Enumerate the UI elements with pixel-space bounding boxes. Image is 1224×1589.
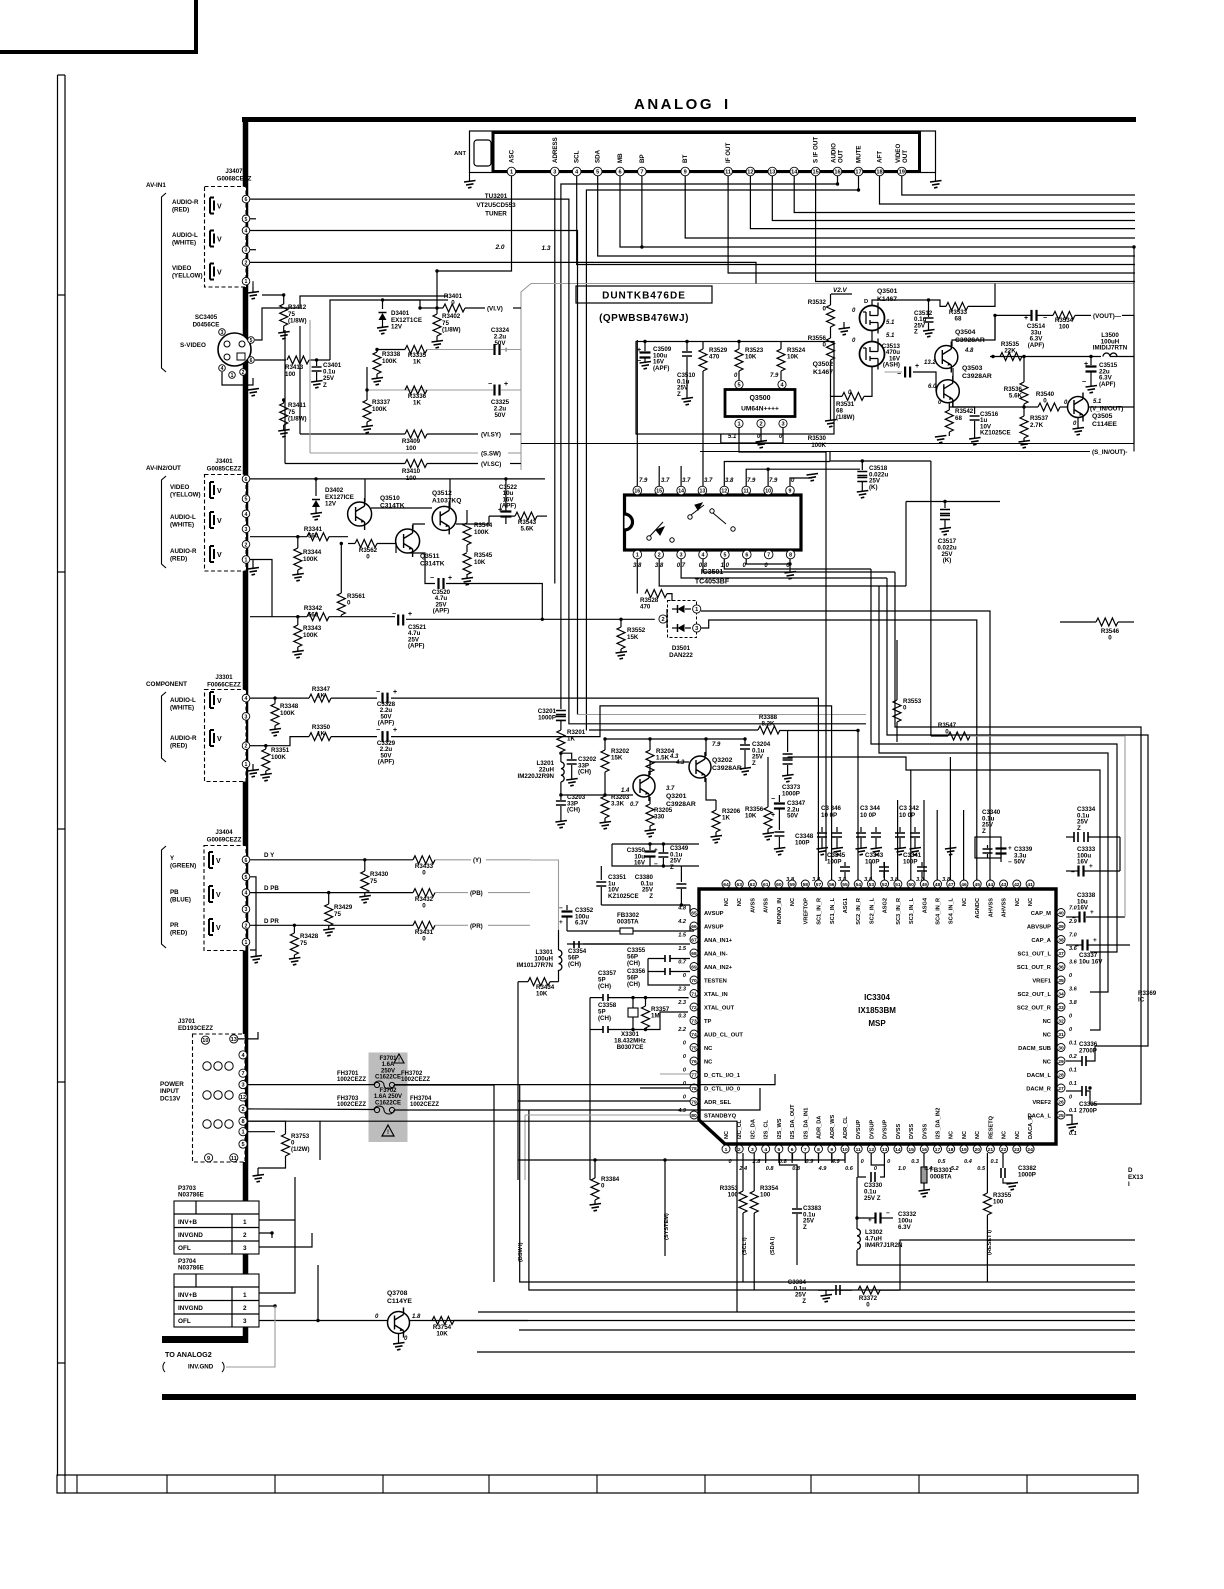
svg-text:−: −: [654, 861, 658, 868]
net label (S_IN/OUT): [700, 451, 1090, 453]
svg-text:68: 68: [955, 415, 962, 422]
svg-text:−: −: [559, 905, 563, 912]
resistor R3528: [645, 590, 667, 598]
resistor R3553: [896, 640, 898, 700]
capacitor C3347: [778, 795, 780, 802]
svg-text:3.8: 3.8: [1069, 1000, 1078, 1006]
svg-text:5: 5: [596, 170, 599, 176]
wire: audio lines into caps: [366, 367, 368, 390]
svg-text:I2C_CL: I2C_CL: [737, 1119, 743, 1139]
wire: SCL I bottom bus: [520, 1085, 1135, 1282]
svg-text:3: 3: [241, 1083, 244, 1089]
svg-text:(YELLOW): (YELLOW): [170, 491, 201, 498]
tuner pin 1: [507, 167, 516, 176]
J3407 jack VIDEO: [210, 264, 214, 280]
net box bottom edge: [521, 443, 1134, 445]
svg-text:6: 6: [791, 1147, 794, 1153]
svg-text:3: 3: [245, 714, 248, 720]
capacitor C3510: [686, 342, 688, 352]
svg-text:Z: Z: [803, 1224, 807, 1231]
wire: ANA_IN1+ line: [567, 943, 630, 945]
wire: video out bus y356: [990, 356, 1101, 358]
svg-text:1000P: 1000P: [1018, 1171, 1036, 1178]
svg-text:(BLUE): (BLUE): [170, 896, 191, 903]
svg-text:V: V: [216, 892, 221, 899]
bottom bus y1352: [477, 1351, 1135, 1353]
svg-text:F3702: F3702: [379, 1088, 397, 1094]
svg-text:(RED): (RED): [172, 206, 189, 213]
svg-text:41: 41: [1027, 882, 1033, 888]
svg-text:(APF): (APF): [1099, 381, 1116, 388]
crystal X3301: [628, 1008, 638, 1017]
wire: elbow bus E: [887, 578, 1148, 1046]
connector J3701 box: [193, 1034, 246, 1162]
svg-text:KZ1025CE: KZ1025CE: [980, 430, 1011, 437]
capacitor C3329: [383, 731, 388, 742]
svg-text:V: V: [216, 925, 221, 932]
svg-text:560: 560: [308, 612, 319, 619]
D3501 pin1: [693, 605, 701, 613]
bracket AV-IN1 group: [162, 193, 167, 372]
resistor R3205: [649, 797, 651, 804]
svg-text:D0456CE: D0456CE: [193, 322, 220, 329]
resistor R3202: [604, 739, 606, 750]
frame: top heavy line: [242, 117, 1136, 122]
svg-text:80: 80: [691, 1113, 697, 1119]
svg-text:(APF): (APF): [408, 643, 425, 650]
svg-text:DVSUP: DVSUP: [856, 1119, 862, 1139]
wire: Q3202 collector/emitter: [705, 739, 707, 756]
svg-text:6: 6: [245, 858, 248, 864]
transistor Q3202: [689, 756, 711, 778]
svg-text:+: +: [1093, 937, 1097, 944]
tuner pin 6: [616, 167, 625, 176]
svg-text:!: !: [398, 1058, 400, 1064]
svg-text:4: 4: [245, 512, 248, 518]
svg-text:3: 3: [553, 170, 556, 176]
svg-text:50: 50: [908, 882, 914, 888]
svg-text:3.8: 3.8: [725, 478, 734, 484]
svg-text:Q3510: Q3510: [380, 495, 400, 502]
svg-text:NC: NC: [724, 1131, 730, 1139]
svg-text:100K: 100K: [811, 442, 826, 449]
svg-text:TP: TP: [704, 1019, 712, 1025]
svg-text:7: 7: [241, 1071, 244, 1077]
Q3500 pin 5: [735, 380, 743, 388]
resistor R3355: [986, 1153, 988, 1193]
J3301 jack AUDIO-R: [210, 730, 214, 746]
svg-text:C3 342: C3 342: [899, 805, 920, 812]
svg-text:(APF): (APF): [378, 720, 395, 727]
J3404 jack PB: [209, 886, 213, 902]
svg-text:1: 1: [231, 373, 234, 379]
svg-text:0.4: 0.4: [964, 1159, 973, 1165]
wire: video-in1 node to R3401: [374, 261, 376, 263]
svg-text:NC: NC: [704, 1046, 713, 1052]
svg-text:ADR_SEL: ADR_SEL: [704, 1100, 732, 1106]
svg-text:C3 344: C3 344: [860, 805, 881, 812]
svg-text:11: 11: [743, 489, 749, 495]
svg-text:43: 43: [1001, 882, 1007, 888]
svg-text:AV-IN1: AV-IN1: [146, 182, 166, 189]
svg-text:(GREEN): (GREEN): [170, 862, 196, 869]
wire: av-in2 audio-R row: [250, 560, 272, 617]
wire: J3701 pin13 to frame: [238, 1032, 258, 1039]
capacitor C3384 and resistor R3372: [818, 1289, 834, 1291]
svg-text:MONO_IN: MONO_IN: [777, 898, 783, 924]
wires: right caps rails: [1119, 837, 1121, 871]
svg-text:Q3504: Q3504: [955, 329, 976, 336]
transistor Q3510: [348, 502, 372, 526]
svg-text:15: 15: [908, 1147, 914, 1153]
tuner pin 7: [638, 167, 647, 176]
svg-text:1.0: 1.0: [898, 1166, 907, 1172]
svg-text:AHVSS: AHVSS: [1002, 898, 1008, 918]
svg-text:I2S_DA_IN1: I2S_DA_IN1: [803, 1108, 809, 1139]
svg-text:16: 16: [834, 170, 840, 176]
ferrite bead FB3301: [921, 1167, 927, 1183]
wires: IC3501 bottom pin connections: [636, 559, 638, 594]
resistor R3524: [780, 342, 782, 350]
resistor R3201: [557, 730, 565, 752]
wire bus: tuner outputs to right edge: [902, 176, 1135, 195]
svg-text:75: 75: [300, 940, 307, 947]
svg-text:78: 78: [691, 1086, 697, 1092]
wire: audio row to Q3201 base: [561, 794, 633, 796]
wire: s-video luma: [255, 308, 300, 340]
svg-text:10K: 10K: [536, 990, 548, 997]
J3404 pins: [242, 856, 250, 864]
svg-text:4.9: 4.9: [818, 1166, 828, 1172]
wire: tuner MUTE pin17 to mute line: [586, 176, 858, 731]
svg-text:5: 5: [245, 875, 248, 881]
svg-text:Q3500: Q3500: [749, 395, 770, 402]
svg-text:ADRESS: ADRESS: [552, 137, 559, 163]
border: left ruler double line: [57, 75, 59, 1476]
svg-text:AUDIO-R: AUDIO-R: [170, 548, 197, 555]
svg-text:(CH): (CH): [568, 961, 581, 968]
svg-text:5: 5: [241, 1142, 244, 1148]
svg-text:(WHITE): (WHITE): [170, 704, 194, 711]
svg-text:DUNTKB476DE: DUNTKB476DE: [602, 291, 686, 302]
resistor R3341: [307, 533, 329, 541]
svg-text:+: +: [559, 919, 563, 926]
svg-text:ABVSUP: ABVSUP: [1027, 925, 1051, 931]
svg-text:J3404: J3404: [215, 829, 233, 836]
svg-text:−: −: [1008, 859, 1012, 866]
svg-text:1002CEZZ: 1002CEZZ: [410, 1102, 439, 1108]
svg-text:22K: 22K: [1004, 347, 1016, 354]
wire: left elbow from C3517 line: [905, 502, 907, 587]
svg-text:29: 29: [1058, 1059, 1064, 1065]
svg-text:5: 5: [245, 217, 248, 223]
svg-text:40: 40: [1058, 911, 1064, 917]
svg-text:1000P: 1000P: [538, 715, 556, 722]
svg-text:XTAL_OUT: XTAL_OUT: [704, 1006, 735, 1012]
svg-text:N03786E: N03786E: [178, 1265, 204, 1272]
J3301 jack AUDIO-L: [210, 692, 214, 708]
svg-text:Z: Z: [752, 760, 756, 767]
IC3501 body: [625, 495, 802, 550]
D3501 pin2: [659, 615, 667, 623]
J3407 pins: [242, 195, 250, 203]
transistor Q3505 C114EE: [1068, 397, 1089, 418]
svg-text:3: 3: [243, 1245, 247, 1252]
svg-text:DAN222: DAN222: [669, 652, 693, 659]
tuner TU3201 outer box: [470, 131, 936, 173]
svg-text:−: −: [488, 347, 492, 354]
svg-text:0.1: 0.1: [1069, 1041, 1077, 1047]
svg-text:ADR_WS: ADR_WS: [830, 1114, 836, 1139]
svg-text:(VI.SY): (VI.SY): [481, 432, 501, 439]
bottom bus y1330: [519, 1329, 1135, 1331]
svg-text:1000P: 1000P: [782, 791, 800, 798]
svg-text:AFT: AFT: [877, 151, 884, 163]
svg-text:G0085CEZZ: G0085CEZZ: [207, 466, 242, 473]
svg-text:34: 34: [1058, 992, 1064, 998]
capacitor C3352: [566, 905, 568, 910]
resistor R3529: [702, 342, 704, 350]
svg-text:14: 14: [791, 170, 798, 176]
svg-text:0008TA: 0008TA: [930, 1173, 952, 1180]
IC3501 pin9 top link: [790, 478, 812, 486]
svg-text:48: 48: [935, 882, 941, 888]
svg-text:Z: Z: [323, 382, 327, 389]
svg-text:3: 3: [245, 527, 248, 533]
svg-text:NC: NC: [1015, 898, 1021, 906]
svg-text:(VOUT)—: (VOUT)—: [1093, 313, 1122, 320]
wire: chroma line down-right: [330, 300, 448, 360]
svg-text:2.0: 2.0: [494, 244, 504, 251]
wires: IC3501 top pin connections: [636, 340, 638, 486]
svg-text:5: 5: [737, 383, 740, 389]
svg-text:10K: 10K: [745, 813, 757, 820]
svg-text:−: −: [1075, 943, 1079, 950]
svg-text:100K: 100K: [303, 556, 318, 563]
IC3304 right pins 40..25: [1057, 909, 1065, 917]
svg-text:4: 4: [702, 553, 705, 559]
svg-text:Q3501: Q3501: [877, 288, 898, 295]
svg-text:DACA_L: DACA_L: [1027, 1114, 1051, 1120]
svg-text:VIDEO: VIDEO: [172, 265, 191, 272]
wire: D3501 pin3 right down to IC3304 pin45: [701, 620, 977, 884]
svg-text:100: 100: [1059, 323, 1070, 330]
svg-text:62: 62: [750, 882, 756, 888]
svg-text:(WHITE): (WHITE): [172, 239, 196, 246]
svg-text:DVSS: DVSS: [922, 1123, 928, 1139]
svg-text:MB: MB: [617, 153, 624, 163]
svg-text:BP: BP: [639, 154, 646, 163]
svg-text:PR: PR: [170, 922, 179, 929]
svg-text:AUDIO: AUDIO: [831, 143, 838, 163]
svg-text:D PR: D PR: [264, 918, 279, 925]
J3701 inner contacts: [203, 1062, 211, 1070]
svg-text:D: D: [864, 299, 868, 305]
svg-text:(QPWBSB476WJ): (QPWBSB476WJ): [599, 313, 689, 324]
svg-text:VREF1: VREF1: [1032, 979, 1051, 985]
wire: AV-IN1 video row: [250, 262, 756, 283]
resistor R3552: [619, 618, 622, 621]
svg-text:5.6K: 5.6K: [520, 526, 534, 533]
capacitor C3401: [309, 359, 330, 361]
svg-text:4.3: 4.3: [675, 760, 685, 766]
resistor R3410: [405, 460, 427, 468]
svg-text:DVSS: DVSS: [896, 1123, 902, 1139]
capacitor C3354: [574, 941, 579, 948]
wire: tuner AUDIO OUT pin16 to audio filter: [561, 176, 838, 709]
svg-text:7.0: 7.0: [1069, 933, 1078, 939]
svg-text:10 0P: 10 0P: [821, 812, 837, 819]
svg-text:ANA_IN-: ANA_IN-: [704, 952, 728, 958]
svg-text:1: 1: [725, 1147, 728, 1153]
svg-text:65: 65: [691, 911, 697, 917]
svg-text:C3 346: C3 346: [821, 805, 842, 812]
resistor R3432: [413, 889, 435, 897]
svg-text:10: 10: [202, 1038, 208, 1044]
svg-text:SC4_IN_R: SC4_IN_R: [936, 898, 942, 925]
net label (S.SW): [310, 452, 478, 454]
svg-text:61: 61: [763, 882, 769, 888]
svg-text:0.3: 0.3: [678, 1014, 687, 1020]
svg-text:Z: Z: [802, 1298, 806, 1305]
svg-text:B0307CE: B0307CE: [617, 1044, 644, 1051]
svg-text:7: 7: [767, 553, 770, 559]
svg-text:SC3405: SC3405: [195, 314, 218, 321]
svg-text:AV-IN2/OUT: AV-IN2/OUT: [146, 465, 181, 472]
svg-text:VREF2: VREF2: [1032, 1100, 1051, 1106]
svg-text:35: 35: [1058, 978, 1064, 984]
svg-text:(RESET I): (RESET I): [987, 1230, 993, 1255]
svg-text:560: 560: [308, 533, 319, 540]
svg-text:5.1: 5.1: [728, 434, 737, 440]
wire: Q3503 emitter to R3542 and base rows: [935, 384, 937, 391]
svg-text:1: 1: [245, 762, 248, 768]
wire: fuse row 1: [247, 1084, 374, 1086]
svg-text:60: 60: [776, 882, 782, 888]
svg-text:Q3511: Q3511: [420, 553, 440, 560]
capacitor C3349: [662, 844, 664, 852]
svg-text:71: 71: [691, 992, 697, 998]
svg-text:1: 1: [245, 279, 248, 285]
svg-text:AUDIO-R: AUDIO-R: [172, 199, 199, 206]
tuner pin 4: [572, 167, 581, 176]
wire: elbow y757 to right caps: [788, 757, 1100, 1030]
svg-text:64: 64: [723, 882, 729, 888]
svg-text:(VI.V): (VI.V): [487, 306, 503, 313]
svg-text:ADR_DA: ADR_DA: [817, 1116, 823, 1139]
svg-text:Z: Z: [670, 864, 674, 871]
svg-text:17: 17: [855, 170, 861, 176]
tuner pin 12: [746, 167, 755, 176]
svg-text:INVGND: INVGND: [178, 1232, 203, 1239]
svg-text:NC: NC: [704, 1060, 713, 1066]
resistor R3434: [528, 978, 550, 986]
svg-text:7: 7: [640, 170, 643, 176]
svg-text:NC: NC: [962, 1131, 968, 1139]
connector P3703 table: [174, 1201, 259, 1254]
resistor R3534: [1053, 311, 1075, 319]
wire: R3412 top joins: [262, 294, 284, 296]
wire: C3518 node down right: [930, 461, 932, 736]
wire: XTAL_OUT to pins: [631, 996, 634, 999]
svg-text:NC: NC: [1015, 1131, 1021, 1139]
Q3500 pin2 ground: [760, 428, 762, 441]
svg-text:1: 1: [636, 553, 639, 559]
net box: video switch enclosure top (gray): [521, 284, 1134, 471]
svg-text:C1622CE: C1622CE: [375, 1075, 401, 1081]
svg-text:7.9: 7.9: [769, 478, 778, 484]
svg-text:50V: 50V: [787, 813, 799, 820]
svg-text:NC: NC: [962, 898, 968, 906]
svg-text:UM64N++++: UM64N++++: [741, 406, 779, 413]
wire: fuse row 2: [247, 1108, 374, 1111]
J3401 jack AUDIO-R: [210, 546, 214, 562]
svg-text:13: 13: [231, 1037, 237, 1043]
svg-text:8: 8: [789, 553, 792, 559]
svg-text:SCL: SCL: [574, 150, 581, 163]
svg-text:17: 17: [935, 1147, 941, 1153]
svg-text:73: 73: [691, 1019, 697, 1025]
svg-text:IM220J2R9N: IM220J2R9N: [518, 773, 555, 780]
resistor R3561: [340, 544, 342, 594]
svg-text:2: 2: [243, 1232, 247, 1239]
svg-text:11: 11: [231, 1156, 237, 1162]
Q3500 cell enclosure box: [636, 342, 834, 435]
wire: Q3500 pin1 down right: [739, 428, 826, 861]
svg-text:OUT: OUT: [838, 150, 845, 163]
svg-text:79: 79: [691, 1100, 697, 1106]
svg-text:DVSUP: DVSUP: [883, 1119, 889, 1139]
svg-text:23: 23: [1014, 1147, 1020, 1153]
resistor R3547: [948, 732, 970, 740]
J3401 jack AUDIO-L: [210, 512, 214, 528]
tuner pin 19: [898, 167, 907, 176]
svg-text:75: 75: [370, 878, 377, 885]
wire: tuner SDA pin5 to right: [598, 176, 1135, 256]
svg-text:MSP: MSP: [868, 1019, 886, 1028]
svg-text:ANA_IN1+: ANA_IN1+: [704, 938, 733, 944]
svg-text:DACM_R: DACM_R: [1026, 1087, 1052, 1093]
svg-text:4.9: 4.9: [677, 1108, 687, 1114]
svg-text:Q3503: Q3503: [962, 365, 983, 372]
svg-text:5: 5: [250, 338, 253, 344]
Q3708 emitter ground: [398, 1334, 400, 1343]
svg-text:100P: 100P: [865, 859, 879, 866]
svg-text:55: 55: [842, 882, 848, 888]
svg-text:69: 69: [691, 965, 697, 971]
svg-text:0: 0: [1108, 635, 1112, 642]
svg-text:DVSS: DVSS: [909, 1123, 915, 1139]
wire: ADR_SEL/STANDBYQ: [518, 1100, 690, 1102]
capacitor C3514 electrolytic: [1032, 310, 1037, 321]
svg-text:VT2U5CD553: VT2U5CD553: [476, 202, 516, 209]
svg-text:30: 30: [1058, 1046, 1064, 1052]
wire: tuner MB/BP pins 6-7 join: [620, 176, 1135, 247]
svg-text:0: 0: [422, 903, 426, 910]
svg-text:(K): (K): [869, 484, 878, 491]
wire: s-video grounds: [222, 372, 253, 385]
border: top-left corner box: [0, 0, 196, 52]
svg-text:Z: Z: [677, 391, 681, 398]
svg-text:49: 49: [922, 882, 928, 888]
svg-text:0.8: 0.8: [792, 1166, 801, 1172]
svg-text:13: 13: [882, 1147, 888, 1153]
svg-text:(WHITE): (WHITE): [170, 521, 194, 528]
svg-text:77: 77: [691, 1073, 697, 1079]
capacitor C3380: [680, 866, 682, 882]
svg-text:(ASH): (ASH): [883, 362, 900, 369]
wire: C3520 out to junction: [446, 584, 542, 620]
